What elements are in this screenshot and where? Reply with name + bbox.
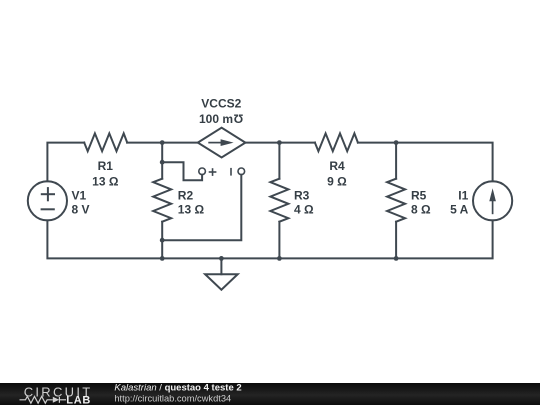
wire return node to bottom rail (161, 240, 163, 258)
footer bar (0, 383, 540, 405)
resistor R5 (387, 179, 405, 222)
svg-text:Kalastrian / questao 4 teste 2: Kalastrian / questao 4 teste 2 (114, 383, 241, 394)
svg-text:9 Ω: 9 Ω (327, 175, 347, 189)
svg-text:5 A: 5 A (450, 203, 469, 217)
control minus mark (rotated) (230, 168, 232, 176)
control terminal plus circle (199, 168, 206, 175)
label R5 value (411, 203, 431, 217)
wire control tap to R2 top (161, 162, 163, 179)
V1 plus sign (42, 188, 54, 200)
label R1 name (98, 159, 114, 173)
wire VCCS2 right to node B (245, 142, 279, 144)
resistor R4 (315, 133, 358, 151)
svg-text:13 Ω: 13 Ω (92, 175, 119, 189)
control terminal minus circle (238, 168, 245, 175)
node C junction dot (394, 140, 399, 145)
wire top-left from V1 top to R1 (47, 143, 84, 182)
V1 minus sign (42, 208, 54, 210)
label R5 name (411, 188, 427, 202)
svg-text:13 Ω: 13 Ω (178, 203, 205, 217)
footer url line (114, 393, 231, 403)
bottom rail dot R3 (277, 256, 282, 261)
bottom rail dot R5 (394, 256, 399, 261)
bottom rail dot ground (219, 256, 224, 261)
label I1 value (450, 203, 469, 217)
node B junction dot (277, 140, 282, 145)
svg-text:VCCS2: VCCS2 (201, 97, 241, 111)
bottom rail dot R2 (160, 256, 165, 261)
wire R5 top lead (395, 143, 397, 179)
svg-text:4 Ω: 4 Ω (294, 203, 314, 217)
svg-text:Ω: Ω (233, 111, 243, 125)
footer logo schematic glyph (20, 396, 67, 403)
label R3 name (294, 188, 310, 202)
wire control plus lead (162, 162, 202, 180)
control tap junction dot (160, 160, 165, 165)
svg-text:R1: R1 (98, 159, 114, 173)
label I1 name (458, 188, 468, 202)
label R3 value (294, 203, 314, 217)
wire V1 bottom to rail (47, 220, 162, 258)
footer attribution line (114, 383, 241, 394)
svg-text:8 Ω: 8 Ω (411, 203, 431, 217)
wire R3 bottom lead (278, 222, 280, 259)
label VCCS2 value 100 mho (199, 111, 243, 126)
resistor R3 (270, 179, 288, 222)
footer logo LAB (66, 395, 91, 405)
label V1 value (72, 203, 90, 217)
current source I1 circle (473, 181, 512, 220)
svg-text:V1: V1 (72, 188, 87, 202)
wire node C to I1 top (396, 143, 493, 182)
svg-text:R4: R4 (329, 159, 345, 173)
I1 arrow (489, 188, 496, 214)
label R4 value (327, 175, 347, 189)
wire bottom rail middle (162, 257, 396, 259)
ground (205, 274, 238, 290)
op-amp VCCS2 diamond body (198, 128, 246, 158)
wire R2 bottom to return node (161, 222, 163, 241)
control return junction dot (160, 238, 165, 243)
svg-text:LAB: LAB (66, 395, 91, 405)
svg-text:I1: I1 (458, 188, 468, 202)
voltage source V1 circle (28, 181, 67, 220)
label V1 name (72, 188, 87, 202)
svg-text:R5: R5 (411, 188, 427, 202)
wire R3 top lead (278, 143, 280, 179)
svg-text:100 m: 100 m (199, 112, 233, 126)
label R2 name (178, 188, 194, 202)
label R1 value (92, 175, 119, 189)
ground stem (220, 258, 222, 274)
svg-text:http://circuitlab.com/cwkdt34: http://circuitlab.com/cwkdt34 (114, 393, 231, 403)
wire control minus lead (162, 175, 241, 241)
resistor R2 (153, 179, 171, 222)
wire R5 bottom lead (395, 222, 397, 259)
VCCS2 arrow (208, 139, 233, 146)
svg-text:8 V: 8 V (72, 203, 90, 217)
wire R1 to node A (127, 142, 162, 144)
wire R4 to node C (358, 142, 396, 144)
wire node B to R4 (279, 142, 315, 144)
footer logo CIRCUIT (24, 384, 93, 399)
label R4 name (329, 159, 345, 173)
node A junction dot (160, 140, 165, 145)
svg-text:R3: R3 (294, 188, 310, 202)
svg-text:R2: R2 (178, 188, 194, 202)
label R2 value (178, 203, 205, 217)
wire bottom rail right to I1 (396, 220, 493, 258)
control plus mark (209, 168, 217, 176)
wire node A to VCCS2 left (162, 142, 198, 144)
wire node A down to control tap (161, 143, 163, 163)
resistor R1 (84, 133, 127, 151)
label VCCS2 name (201, 97, 241, 111)
